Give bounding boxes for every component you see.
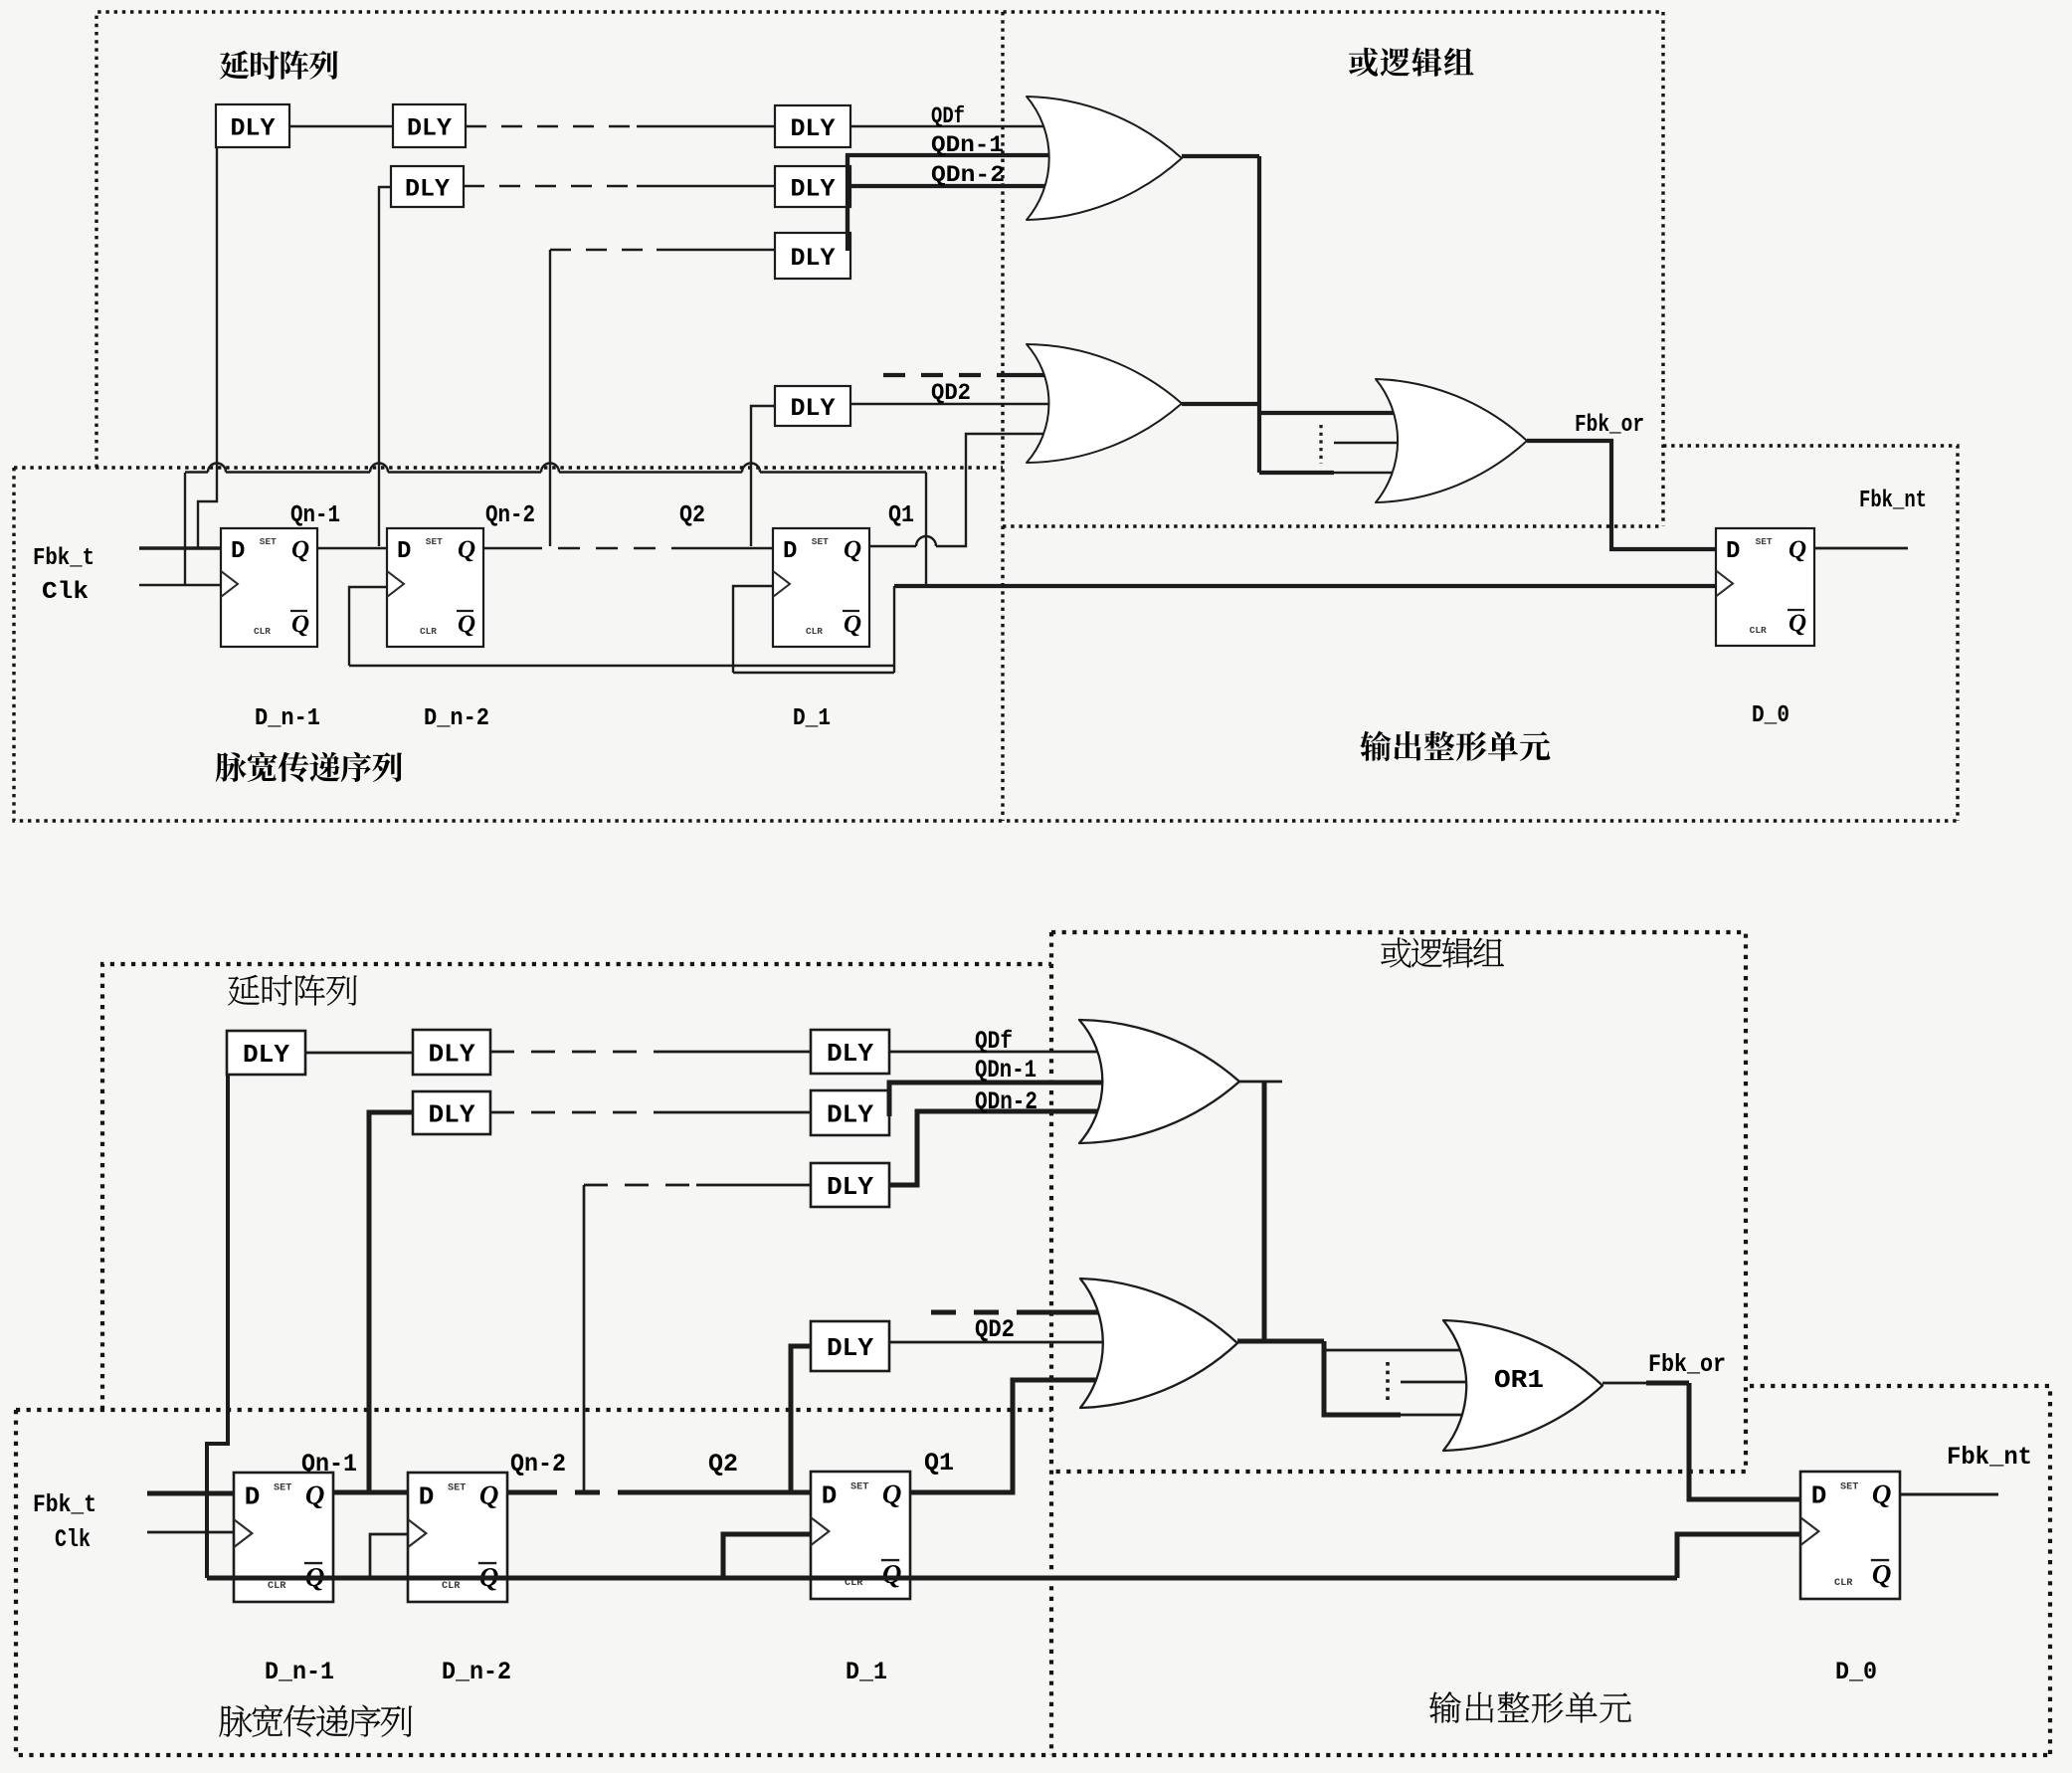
flip-flop D_n-2 (top) [387,528,483,647]
label 脉宽传递序列 (bottom) [219,1705,252,1736]
wire OR1-OR2 junction vertical (top) [1257,156,1261,473]
delay cell DLY4 row2 (top) [391,166,464,207]
wire clk drop to D_0 clock line (top) [925,473,927,587]
svg-text:DLY: DLY [827,1333,873,1363]
svg-text:Qn-2: Qn-2 [510,1450,566,1478]
delay cell DLY7 QD2 (top) [775,386,850,426]
svg-text:QDn-1: QDn-1 [975,1056,1036,1084]
label 或逻辑组 (top) [1349,48,1378,77]
wire QD2 (bottom) [889,1341,1114,1344]
wire DLY1-DLY2 (top) [289,125,393,127]
wire Q1 to OR2 (bottom) [910,1380,1114,1492]
wire Qn-1 riser to row2 DLY (bottom) [369,1112,413,1492]
wire OR2 output (bottom) [1237,1339,1324,1344]
svg-text:D: D [419,1481,435,1511]
svg-text:Fbk_or: Fbk_or [1575,412,1644,439]
svg-text:QD2: QD2 [931,380,971,406]
svg-text:Fbk_nt: Fbk_nt [1947,1443,2032,1472]
svg-text:SET: SET [1756,536,1773,547]
svg-text:Q: Q [882,1559,902,1589]
svg-text:D_1: D_1 [793,705,831,732]
svg-text:DLY: DLY [231,113,276,142]
dashed box: OR logic group (top) 或逻辑组 [1003,12,1663,821]
svg-text:D_n-2: D_n-2 [424,705,489,732]
svg-text:CLR: CLR [1750,625,1767,636]
wire clk distribution with hops (top) [185,464,926,473]
delay cell DLY1 (top) [216,104,289,147]
dashed box: pulse-width transfer sequence (bottom) 脉宽传递序列 [16,1410,2050,1755]
svg-text:SET: SET [1840,1480,1858,1492]
svg-text:Q2: Q2 [708,1450,738,1478]
wire Qn-1 net (bottom) [333,1490,408,1495]
label 输出整形单元 (bottom) [1429,1691,1461,1722]
svg-text:DLY: DLY [827,1100,873,1130]
flip-flop D_n-2 (bottom) [408,1473,507,1602]
wire OR1 output (bottom) [1239,1081,1282,1083]
svg-text:Q: Q [458,611,475,638]
wire OR3 bottom input (top) [1259,471,1334,475]
delay cell DLY1 (bottom) [227,1031,305,1075]
flip-flop D_0 (top) [1716,528,1814,646]
wire OR3 step to bottom input (bottom) [1324,1341,1401,1415]
svg-text:Q: Q [291,611,309,638]
svg-text:DLY: DLY [429,1100,475,1130]
label 或逻辑组 (bottom) [1381,937,1411,967]
OR gate 2 (top) [1027,344,1182,463]
wire Q2 net dashed (top) [482,547,520,550]
flip-flop D_n-1 (top) [221,528,317,647]
svg-text:QDn-2: QDn-2 [975,1087,1037,1116]
flip-flop D_n-1 (bottom) [234,1473,333,1602]
OR gate 2 (bottom) [1080,1279,1237,1408]
delay cell DLY6 row3 (top) [775,233,850,279]
svg-text:DLY: DLY [791,244,836,273]
wire Qn-1 net (top) [317,547,387,550]
wire clock return riser (top) [893,586,895,673]
svg-text:DLY: DLY [791,394,836,423]
wire long clock line to D_0 (bottom) [207,1534,1800,1578]
OR gate 1 (top) [1027,97,1182,220]
wire D_0 Q output Fbk_nt (top) [1814,547,1908,550]
svg-text:SET: SET [448,1481,466,1493]
OR gate 1 (bottom) [1079,1020,1239,1143]
wire row2 DLY dashed (top) [464,185,637,187]
dashed box: delay array (top) 延时阵列 [96,12,1663,468]
delay cell DLY3 (bottom) [811,1030,889,1074]
svg-text:QDn-1: QDn-1 [931,132,1004,158]
wire clock line to D_0 (top) [894,584,1716,588]
svg-text:Q: Q [844,536,861,563]
svg-text:Q: Q [291,536,309,563]
wire QDn-1 riser redraw (bottom) [887,1083,892,1116]
wire Fbk_t input (top) [139,546,221,550]
wire OR2 output (top) [1182,402,1259,406]
wire D_1 clock elbow (bottom) [723,1534,811,1580]
svg-text:Q: Q [1789,536,1806,563]
svg-text:DLY: DLY [429,1040,475,1070]
wire DLY2-DLY3 dashed (bottom) [490,1051,661,1054]
svg-text:SET: SET [850,1480,868,1492]
svg-text:SET: SET [426,536,443,547]
wire clk riser (top) [184,473,186,585]
label 脉宽传递序列 (top) [216,752,247,782]
wire QDf (top) [850,125,1056,127]
dashed box: OR logic group (bottom) 或逻辑组 [1051,932,1746,1755]
svg-text:D: D [1811,1480,1827,1510]
wire QDn-1 (top) [848,155,1056,251]
svg-text:DLY: DLY [791,174,836,203]
flip-flop D_0 (bottom) [1800,1472,1900,1599]
wire row3 DLY dashed (top) [550,249,657,251]
wire Fbk_or to D_0 (top) [1527,441,1716,549]
wire row2 DLY dashed (bottom) [490,1111,661,1114]
svg-text:SET: SET [812,536,829,547]
svg-text:Q1: Q1 [888,502,914,529]
wire dashed input OR2 (top) [883,373,1007,377]
svg-text:CLR: CLR [806,626,823,637]
dots vertical ellipsis OR3 inputs (top) [1319,425,1322,464]
svg-text:DLY: DLY [791,114,836,143]
svg-text:Fbk_t: Fbk_t [33,545,94,572]
wire D_n-2 clock elbow (top) [349,587,387,666]
svg-text:D_n-2: D_n-2 [442,1658,511,1686]
delay cell DLY3 (top) [775,105,850,147]
svg-text:CLR: CLR [420,626,437,637]
delay cell DLY2 (top) [393,104,466,147]
wire OR3 top input (top) [1259,411,1405,415]
wire QD2 delay feed from Q2 (top) [751,406,775,546]
svg-text:Q: Q [1789,610,1806,637]
svg-text:D_1: D_1 [846,1658,887,1686]
wire OR3 middle input stub (top) [1334,442,1417,444]
wire QDf (bottom) [889,1051,1112,1054]
svg-text:SET: SET [274,1481,291,1493]
svg-text:Clk: Clk [42,579,89,606]
svg-text:CLR: CLR [268,1580,286,1592]
svg-text:D_n-1: D_n-1 [255,705,320,732]
wire QD2 delay feed (bottom) [791,1346,811,1492]
svg-text:D: D [822,1480,838,1510]
svg-text:D_0: D_0 [1835,1658,1877,1686]
svg-text:D: D [783,538,797,565]
svg-text:Fbk_t: Fbk_t [33,1490,96,1519]
wire clock return line B (top) [733,672,894,674]
svg-text:QDf: QDf [931,103,965,129]
wire DLY1-DLY2 (bottom) [305,1052,413,1055]
delay cell DLY7 QD2 (bottom) [811,1321,889,1371]
dashed box: delay array (bottom) 延时阵列 [102,964,1051,1410]
delay cell DLY2 (bottom) [413,1030,490,1075]
wire Q1 to OR2 input (top) [869,434,1056,546]
svg-text:CLR: CLR [254,626,271,637]
svg-text:CLR: CLR [442,1580,461,1592]
svg-text:D: D [1726,538,1740,565]
svg-text:D: D [245,1481,261,1511]
svg-text:Qn-1: Qn-1 [290,502,340,529]
svg-text:OR1: OR1 [1494,1365,1544,1395]
svg-text:QD2: QD2 [975,1315,1015,1344]
delay cell DLY5 row2 (bottom) [811,1090,889,1135]
wire dashed input OR2 (bottom) [931,1310,1035,1315]
wire QDn-1 (bottom) [889,1083,1112,1114]
wire row3 feed riser (bottom) [583,1185,586,1492]
wire row3 DLY dashed (bottom) [584,1184,696,1187]
svg-text:Q1: Q1 [924,1449,954,1477]
label 延时阵列 (top) [220,51,249,80]
wire QD2 (top) [850,403,1056,405]
wire Q2 net dashed (bottom) [507,1490,532,1495]
wire QDn-1 riser redraw (top) [846,155,849,251]
svg-text:D: D [231,538,245,565]
wire D_1 clock elbow (top) [733,586,773,673]
svg-text:Fbk_or: Fbk_or [1648,1350,1726,1379]
wire DLY1 feed from Fbk_t (top) [198,126,217,548]
dashed box: pulse-width transfer sequence (top) 脉宽传递序列 [14,468,1958,821]
wire OR1 output (top) [1182,154,1259,158]
wire Fbk_t input (bottom) [147,1491,234,1496]
svg-text:Q: Q [1872,1559,1892,1589]
svg-text:CLR: CLR [1834,1577,1853,1589]
dashed box: output shaping unit (bottom) 输出整形单元 [1750,1386,2050,1755]
svg-text:D: D [397,538,411,565]
svg-text:Q: Q [305,1479,325,1509]
label 延时阵列 (bottom) [228,975,259,1005]
wire D_n-2 clock elbow (bottom) [370,1534,408,1580]
svg-text:DLY: DLY [827,1039,873,1069]
wire Qn-1 riser to row2 DLY (top) [379,187,391,546]
delay cell DLY4 row2 (bottom) [413,1091,490,1134]
label 输出整形单元 (top) [1360,731,1391,761]
svg-text:Q: Q [458,536,475,563]
wire OR3 top input (bottom) [1324,1349,1470,1352]
wire Fbk_or to D_0 (bottom) [1602,1382,1646,1385]
svg-text:DLY: DLY [405,174,450,203]
svg-text:QDn-2: QDn-2 [931,162,1005,188]
wire Clk input (bottom) [147,1531,234,1534]
svg-text:Q: Q [882,1478,902,1508]
svg-text:Q: Q [1872,1478,1892,1508]
svg-text:QDf: QDf [975,1027,1013,1056]
flip-flop D_1 (top) [773,528,869,647]
wire OR1-OR2 junction vertical (bottom) [1262,1082,1267,1341]
wire Clk input (top) [139,584,221,587]
svg-text:DLY: DLY [243,1040,289,1070]
delay cell DLY6 row3 (bottom) [811,1163,889,1207]
wire DLY2-DLY3 dashed (top) [466,125,637,127]
svg-text:Q: Q [479,1479,499,1509]
wire DLY1 feed (bottom) [207,1075,228,1578]
wire clock return line A (top) [349,665,894,667]
svg-text:D_n-1: D_n-1 [265,1658,334,1686]
dashed box: output shaping unit (top) 输出整形单元 [1663,446,1958,821]
wire QDn-2 jog redraw (bottom) [889,1111,917,1185]
delay cell DLY5 row2 (top) [775,166,850,207]
wire QDn-2 (top) [845,184,1056,188]
svg-text:Qn-2: Qn-2 [485,502,535,529]
svg-text:DLY: DLY [827,1172,873,1202]
wire D_0 Q output Fbk_nt (bottom) [1900,1493,1998,1496]
svg-text:SET: SET [260,536,277,547]
svg-text:Q: Q [844,611,861,638]
OR gate 3 (top) [1376,379,1527,502]
wire OR3 middle input stub (bottom) [1401,1381,1504,1384]
wire QDn-2 from row3 (bottom) [889,1111,1112,1185]
svg-text:Fbk_nt: Fbk_nt [1859,488,1927,514]
dots vertical ellipsis OR3 (bottom) [1386,1362,1390,1403]
OR gate 3 OR1 (bottom) [1443,1320,1602,1451]
svg-text:Q2: Q2 [679,502,705,529]
svg-text:Clk: Clk [55,1525,91,1554]
wire row3 DLY feed riser (top) [549,250,551,546]
svg-text:D_0: D_0 [1752,702,1789,729]
flip-flop D_1 (bottom) [811,1472,910,1599]
svg-text:DLY: DLY [407,113,452,142]
